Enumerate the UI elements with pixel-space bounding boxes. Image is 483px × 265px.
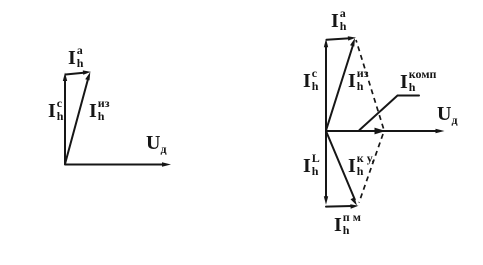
wire: right vector Ih-komp on axis bbox=[326, 130, 377, 132]
label left Iha bbox=[68, 48, 83, 69]
label right Ih-ku bbox=[348, 156, 375, 177]
arrowhead left axis bbox=[162, 162, 171, 167]
arrowhead left Iha bbox=[83, 70, 91, 74]
wire: right U axis bbox=[326, 130, 438, 132]
label left Ihc bbox=[48, 101, 63, 122]
arrowhead right Ihc bbox=[324, 39, 328, 48]
label right Ih-komp bbox=[400, 72, 436, 93]
label right Ih-pm bbox=[334, 215, 361, 236]
label left Ud bbox=[146, 133, 167, 155]
arrowhead right axis bbox=[436, 129, 445, 134]
wire: right vector Ih-iz diagonal up bbox=[326, 45, 353, 131]
label right Ih-iz bbox=[348, 71, 369, 92]
arrowhead right Ih-iz bbox=[350, 38, 355, 47]
label right Ud bbox=[437, 104, 458, 126]
label left Ih-iz bbox=[89, 101, 110, 122]
wire: right vector IhL vertical down bbox=[325, 131, 327, 198]
wire: right vector Ih-ku diagonal down bbox=[326, 131, 355, 200]
arrowhead right IhL down bbox=[324, 196, 328, 205]
wire: dashed construction lower bbox=[359, 134, 383, 203]
wire: left vector Ihc vertical bbox=[64, 80, 66, 164]
wire: left connector Iha bbox=[66, 73, 86, 75]
wire: right connector Ih-pm bottom bbox=[326, 205, 352, 208]
label right IhL bbox=[303, 156, 320, 177]
arrowhead right Ih-ku bbox=[351, 197, 358, 205]
arrowhead left Ih-iz bbox=[85, 72, 90, 80]
wire: right vector Ihc vertical up bbox=[325, 46, 327, 131]
wire: dashed construction upper bbox=[356, 40, 384, 129]
arrowhead right Ih-komp (bigger) bbox=[375, 128, 386, 135]
arrowhead right Ih-pm bbox=[350, 204, 358, 208]
wire: left vector Ih-iz diagonal bbox=[65, 78, 88, 164]
wire: right connector Iha top bbox=[327, 38, 351, 40]
arrowhead right Iha bbox=[348, 36, 356, 40]
arrowhead left Ihc bbox=[63, 73, 67, 82]
wire: leader line to komp label bbox=[360, 96, 420, 131]
wire: left U axis bbox=[65, 164, 164, 166]
label right Ihc bbox=[303, 71, 318, 92]
label right Iha bbox=[331, 11, 346, 32]
